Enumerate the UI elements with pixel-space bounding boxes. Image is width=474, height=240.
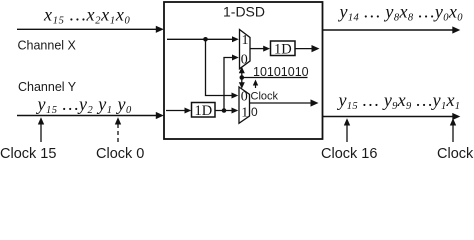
wire: top mux output to 1D [250, 46, 270, 52]
wire: 10101010 clock wire (underline) [242, 77, 308, 79]
svg-text:Channel Y: Channel Y [18, 80, 77, 94]
svg-text:y15 …y2 y1 y0: y15 …y2 y1 y0 [36, 94, 133, 116]
node: junction on bottom 1D output [222, 108, 227, 113]
clock arrow: Clock 16 (solid) [344, 118, 350, 142]
wire: bottom output line [323, 113, 461, 120]
svg-text:Clock 16: Clock 16 [321, 146, 377, 159]
node: junction on internal X wire [203, 37, 208, 42]
svg-text:x15 …x2x1x0: x15 …x2x1x0 [43, 4, 131, 26]
wire: Channel Y input line [17, 112, 164, 119]
svg-text:1-DSD: 1-DSD [223, 4, 265, 20]
wire: top 1D output arrow toward box edge [295, 45, 320, 52]
wire: internal X wire to top mux input 1 [167, 36, 239, 42]
svg-text:Clock 1: Clock 1 [437, 146, 474, 159]
svg-text:1D: 1D [195, 103, 213, 119]
wire: internal Y wire into bottom 1D [166, 108, 191, 114]
wire: Channel X input line [17, 26, 164, 33]
delay element 1D (bottom) [192, 103, 216, 120]
mux U1 (top multiplexer) [240, 30, 251, 69]
svg-text:0: 0 [241, 89, 248, 104]
wire: select line with up arrow into top mux [239, 67, 245, 78]
clock arrow: Clock 15 (solid) [38, 117, 44, 142]
wire: from bottom junction up to top mux input 0 [224, 55, 239, 111]
svg-text:0: 0 [241, 53, 248, 68]
wire: vertical from X junction down to bottom mux input 0 [206, 39, 239, 98]
svg-text:y14 … y8x8 …y0x0: y14 … y8x8 …y0x0 [338, 1, 464, 23]
wire: up arrow from Clock label to clock wire [253, 80, 258, 89]
svg-text:Clock: Clock [251, 91, 279, 103]
clock arrow: Clock 1 (solid) [450, 118, 456, 142]
wire: bottom 1D output to bottom mux input 1 [215, 108, 238, 114]
svg-text:1D: 1D [274, 42, 292, 58]
wire: top output line [323, 26, 461, 33]
svg-text:1: 1 [242, 33, 249, 48]
block: 1-DSD box [164, 2, 323, 139]
svg-text:1: 1 [241, 106, 248, 121]
delay element 1D (top) [271, 41, 296, 58]
wire: select line with down arrow into bottom mux [239, 78, 245, 89]
svg-text:Channel X: Channel X [18, 39, 77, 53]
svg-text:y15 … y9x9 …y1x1: y15 … y9x9 …y1x1 [337, 90, 461, 112]
wire: clock output arrow toward box edge [250, 99, 319, 106]
mux U2 (bottom multiplexer) [239, 87, 250, 123]
svg-text:10101010: 10101010 [253, 65, 309, 79]
node: junction on select line [240, 75, 245, 80]
svg-text:Clock 0: Clock 0 [96, 146, 144, 159]
svg-text:Clock 15: Clock 15 [0, 146, 56, 159]
clock arrow: Clock 0 (dashed) [115, 117, 121, 142]
svg-text:0: 0 [251, 105, 258, 119]
